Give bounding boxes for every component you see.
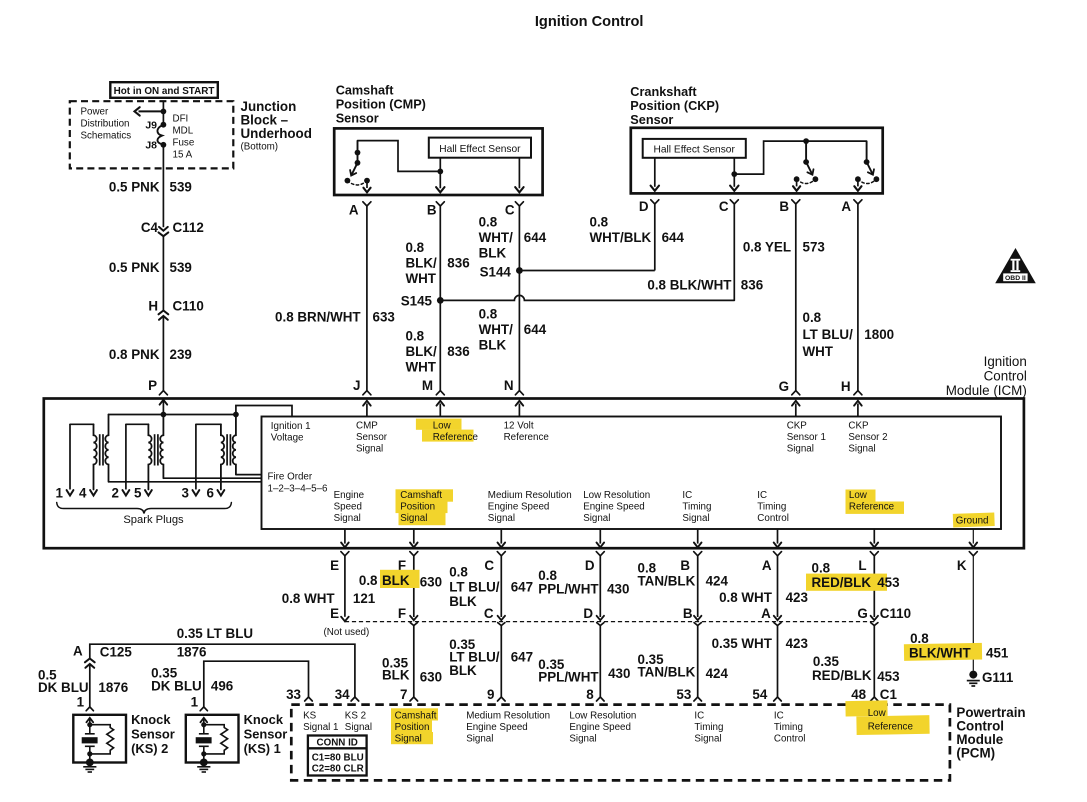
spark plugs brace [57, 503, 232, 514]
svg-text:Module (ICM): Module (ICM) [946, 383, 1027, 398]
svg-text:BLK: BLK [479, 246, 507, 261]
spark plug output 1 [67, 490, 74, 495]
wire: 0.8 WHT 423 from ICM A [777, 556, 779, 617]
connector C4 C112 [159, 227, 168, 231]
svg-text:430: 430 [608, 666, 630, 681]
svg-text:F: F [398, 606, 406, 621]
ignition coil 1 secondary loop [70, 423, 94, 425]
svg-text:0.8: 0.8 [406, 240, 425, 255]
svg-text:D: D [583, 606, 593, 621]
svg-text:C: C [505, 203, 515, 218]
arrow: F signal out of module [413, 529, 415, 544]
arrow: CMP sensor signal into module [366, 404, 368, 417]
svg-text:630: 630 [420, 575, 442, 590]
svg-text:BLK: BLK [382, 668, 410, 683]
spark plug output 3 [193, 490, 200, 495]
svg-text:WHT/: WHT/ [479, 230, 513, 245]
svg-text:Signal: Signal [583, 513, 610, 524]
svg-text:0.8 YEL: 0.8 YEL [743, 240, 791, 255]
fuse DFI MDL 15 A [161, 122, 167, 128]
highlight: Low Reference (ICM top) [416, 419, 462, 430]
svg-text:Knock: Knock [244, 712, 284, 727]
svg-text:Ignition 1: Ignition 1 [271, 421, 311, 432]
svg-text:239: 239 [170, 347, 192, 362]
knock sensor KS2 case ground [86, 759, 94, 767]
svg-text:4: 4 [79, 486, 87, 501]
wire into PCM pin 54 [777, 625, 779, 697]
svg-text:N: N [504, 378, 514, 393]
svg-text:121: 121 [353, 591, 376, 606]
highlight: BLK of 0.8 BLK 630 [380, 570, 420, 588]
knock sensor KS1 internal resistor [204, 725, 228, 754]
svg-text:Voltage: Voltage [271, 433, 304, 444]
svg-text:(KS) 1: (KS) 1 [244, 741, 281, 756]
svg-text:C110: C110 [880, 606, 911, 621]
svg-text:BLK: BLK [449, 663, 477, 678]
spark plug output 4 [90, 490, 97, 495]
ignition coil 3 secondary loop [196, 423, 221, 425]
ignition coil 3 primary winding [233, 415, 236, 475]
wire: 0.8 WHT 121 from ICM E (not used) [344, 556, 346, 617]
knock sensor KS1 case ground [200, 759, 208, 767]
svg-text:Engine Speed: Engine Speed [466, 722, 528, 733]
svg-text:Speed: Speed [334, 502, 362, 513]
OBD II symbol [997, 250, 1035, 283]
svg-text:15 A: 15 A [173, 150, 193, 161]
svg-text:C2=80 CLR: C2=80 CLR [312, 763, 364, 774]
ignition coil 2 primary winding [160, 415, 163, 479]
svg-text:630: 630 [420, 670, 442, 685]
svg-text:Signal: Signal [395, 734, 422, 745]
knock sensor KS2 signal arrow [86, 718, 93, 722]
svg-text:(Not used): (Not used) [324, 627, 370, 638]
svg-text:Control: Control [774, 734, 806, 745]
svg-text:Engine Speed: Engine Speed [583, 502, 645, 513]
svg-text:J8: J8 [145, 140, 157, 152]
svg-text:Position: Position [395, 722, 430, 733]
CKP trigger switch 2 [866, 141, 868, 162]
CMP switch dashed throw arc [347, 181, 367, 185]
highlight: BLK/WHT of 0.8 BLK/WHT 451 [904, 643, 982, 661]
svg-text:K: K [957, 558, 967, 573]
svg-text:Signal 1: Signal 1 [303, 722, 338, 733]
svg-text:2: 2 [111, 486, 118, 501]
svg-text:453: 453 [877, 669, 899, 684]
bus junction dot at pin P [161, 412, 167, 418]
svg-text:54: 54 [752, 687, 767, 702]
svg-text:KS: KS [303, 711, 317, 722]
wire: 0.5 PNK 539 from fuse to C112 [162, 145, 164, 227]
wire: KS 1 lead [203, 669, 205, 707]
svg-text:12 Volt: 12 Volt [504, 421, 534, 432]
svg-text:BLK: BLK [479, 338, 507, 353]
CMP switch output wire to pin A [366, 181, 368, 188]
CMP junction dot on hall-B line [437, 169, 443, 175]
svg-text:C1: C1 [880, 687, 898, 702]
svg-text:836: 836 [447, 344, 469, 359]
svg-text:539: 539 [170, 260, 192, 275]
svg-text:0.35: 0.35 [813, 654, 840, 669]
svg-text:496: 496 [211, 679, 233, 694]
junction dot on feed wire [161, 109, 167, 115]
svg-text:Fire Order: Fire Order [268, 472, 313, 483]
svg-text:0.8 PNK: 0.8 PNK [109, 347, 160, 362]
svg-text:0.8: 0.8 [910, 631, 929, 646]
svg-text:TAN/BLK: TAN/BLK [638, 665, 696, 680]
CKP hall wire to pin C with branch to switches [733, 158, 735, 187]
wire: 0.8 LT BLU/WHT 1800 CKP A to ICM H [857, 204, 859, 391]
highlight: Ground [953, 512, 995, 527]
arrow: 12 volt reference into module [518, 404, 520, 417]
svg-text:Signal: Signal [682, 513, 709, 524]
arrow: K signal out of module [972, 529, 974, 544]
svg-text:Medium Resolution: Medium Resolution [488, 490, 572, 501]
arrow: low reference into module [439, 404, 441, 417]
ICM inner box [262, 417, 1002, 530]
svg-text:Signal: Signal [345, 722, 372, 733]
svg-text:C1=80 BLU: C1=80 BLU [312, 753, 364, 764]
ignition coil 3 secondary winding [221, 424, 224, 489]
svg-text:PPL/WHT: PPL/WHT [538, 582, 599, 597]
svg-text:Ignition Control: Ignition Control [535, 14, 644, 30]
svg-text:Sensor 2: Sensor 2 [848, 432, 887, 443]
svg-text:8: 8 [586, 687, 594, 702]
svg-text:9: 9 [487, 687, 494, 702]
connector A C125 [85, 664, 94, 668]
wire: pin P into ignition 1 voltage bus [160, 400, 168, 405]
svg-text:A: A [349, 203, 359, 218]
svg-text:1876: 1876 [177, 645, 207, 660]
svg-text:E: E [330, 558, 339, 573]
svg-text:MDL: MDL [173, 126, 194, 137]
arrow: B signal out of module [697, 529, 699, 544]
connector on CMP wire C [515, 202, 523, 206]
svg-text:1: 1 [77, 695, 85, 710]
knock sensor KS1 box [186, 715, 239, 763]
svg-text:PPL/WHT: PPL/WHT [538, 670, 599, 685]
svg-text:Hot in ON and START: Hot in ON and START [114, 86, 215, 97]
CKP trigger switch 1 [805, 141, 807, 162]
svg-text:Reference: Reference [433, 432, 479, 443]
svg-text:G: G [857, 606, 867, 621]
svg-text:Timing: Timing [774, 722, 803, 733]
wire: 0.8 YEL 573 CKP B to ICM G [795, 204, 797, 391]
svg-text:53: 53 [676, 687, 691, 702]
svg-text:0.8: 0.8 [479, 215, 498, 230]
connector A at separator [774, 616, 781, 620]
svg-text:Signal: Signal [466, 734, 493, 745]
PCM dashed box [291, 705, 950, 781]
svg-text:CMP: CMP [356, 421, 378, 432]
svg-text:KS 2: KS 2 [345, 711, 366, 722]
ICM outer box [44, 399, 1024, 549]
wire: 0.5 DK BLU 1876 to KS 2 [89, 664, 91, 707]
connector C at separator [498, 616, 505, 620]
svg-text:Medium Resolution: Medium Resolution [466, 711, 550, 722]
wire into PCM pin 53 [697, 625, 699, 697]
svg-text:P: P [148, 378, 157, 393]
svg-text:5: 5 [134, 486, 142, 501]
wire: 0.8 TAN/BLK 424 from ICM B [697, 556, 699, 617]
svg-text:Reference: Reference [504, 432, 550, 443]
svg-text:Low: Low [849, 490, 868, 501]
svg-text:A: A [841, 199, 851, 214]
connector F at separator [410, 616, 417, 620]
highlight: RED/BLK of 0.8 RED/BLK 453 [806, 574, 887, 591]
svg-text:BLK/WHT: BLK/WHT [909, 646, 972, 661]
svg-text:LT BLU/: LT BLU/ [449, 580, 500, 595]
svg-text:C125: C125 [100, 645, 133, 660]
spark plug output 2 [123, 490, 130, 495]
svg-text:S145: S145 [401, 294, 433, 309]
svg-text:0.8: 0.8 [406, 329, 425, 344]
svg-text:Signal: Signal [356, 444, 383, 455]
CKP bus junction dot [803, 138, 809, 144]
svg-text:C110: C110 [173, 299, 204, 314]
highlight: Camshaft Position Signal (PCM) [391, 708, 438, 720]
svg-text:Hall Effect Sensor: Hall Effect Sensor [654, 145, 736, 156]
knock sensor KS2 box [73, 715, 126, 763]
wire: 0.8 RED/BLK 453 from ICM L [873, 556, 875, 617]
connector on CKP wire C [730, 200, 738, 204]
knock sensor KS1 signal arrow [200, 718, 207, 722]
svg-text:34: 34 [335, 687, 350, 702]
knock sensor KS2 piezo element [85, 733, 95, 735]
svg-text:Control: Control [984, 369, 1027, 384]
svg-text:0.5 PNK: 0.5 PNK [109, 260, 160, 275]
svg-text:423: 423 [786, 636, 808, 651]
svg-text:H: H [841, 379, 851, 394]
svg-text:L: L [858, 558, 866, 573]
wire into PCM pin 8 [599, 625, 601, 697]
svg-text:WHT/: WHT/ [479, 322, 513, 337]
CKP sensor box [631, 128, 883, 194]
svg-text:WHT: WHT [406, 360, 437, 375]
CMP trigger switch [357, 141, 359, 163]
ignition coil 2 core [154, 434, 156, 465]
svg-text:1800: 1800 [864, 327, 894, 342]
arrow: A signal out of module [777, 529, 779, 544]
svg-text:451: 451 [986, 646, 1009, 661]
svg-text:424: 424 [706, 666, 729, 681]
svg-text:Position (CKP): Position (CKP) [630, 99, 719, 113]
junction block dashed box [70, 101, 234, 168]
ignition 1 voltage bus [109, 414, 236, 416]
svg-text:7: 7 [400, 687, 407, 702]
svg-text:0.8 BRN/WHT: 0.8 BRN/WHT [275, 310, 361, 325]
wire into PCM pin 48 [873, 625, 875, 697]
svg-text:Power: Power [81, 107, 110, 118]
svg-text:Signal: Signal [569, 734, 596, 745]
svg-text:OBD II: OBD II [1005, 275, 1026, 282]
svg-text:647: 647 [511, 580, 533, 595]
svg-text:424: 424 [706, 574, 729, 589]
svg-text:0.35 WHT: 0.35 WHT [712, 636, 773, 651]
svg-text:CONN ID: CONN ID [317, 737, 358, 748]
svg-text:Spark Plugs: Spark Plugs [123, 514, 184, 526]
svg-text:3: 3 [181, 486, 188, 501]
svg-text:Camshaft: Camshaft [400, 490, 442, 501]
wire: 0.5 PNK 539 from C112 to C110 [162, 236, 164, 310]
svg-text:Sensor: Sensor [244, 726, 288, 741]
svg-text:BLK/: BLK/ [406, 256, 438, 271]
svg-text:0.35 LT BLU: 0.35 LT BLU [177, 626, 253, 641]
connector on CMP wire A [363, 202, 371, 206]
wire: 0.8 WHT/BLK 644 CKP D to splice S144 [654, 204, 656, 271]
wire: 0.8 BLK/WHT 836 CMP B to ICM M [439, 206, 441, 391]
svg-text:Reference: Reference [868, 722, 914, 733]
svg-text:A: A [73, 644, 83, 659]
svg-text:0.8: 0.8 [359, 573, 378, 588]
connector G C110 at separator [871, 616, 878, 620]
svg-text:Reference: Reference [849, 502, 895, 513]
svg-text:TAN/BLK: TAN/BLK [638, 574, 696, 589]
svg-text:Camshaft: Camshaft [395, 711, 437, 722]
svg-text:IC: IC [757, 490, 767, 501]
wire: 0.8 LT BLU/BLK 647 from ICM C [500, 556, 502, 617]
highlight: Low Reference (PCM) [845, 700, 887, 716]
svg-text:CKP: CKP [787, 421, 808, 432]
wire: 0.35 LT BLU 1876 to PCM pin 34 [90, 644, 355, 697]
svg-text:(KS) 2: (KS) 2 [131, 741, 168, 756]
connector B at separator [694, 616, 701, 620]
svg-text:Signal: Signal [488, 513, 515, 524]
svg-text:G: G [779, 379, 789, 394]
CKP switch 2 output wire to pin A [857, 179, 859, 186]
connector D at separator [597, 616, 604, 620]
svg-text:M: M [422, 378, 433, 393]
svg-text:Sensor: Sensor [630, 113, 673, 127]
ignition coil 2 secondary winding [148, 424, 151, 489]
wire: 0.8 WHT/BLK 644 CMP C to ICM N [518, 206, 520, 391]
svg-text:1–2–3–4–5–6: 1–2–3–4–5–6 [268, 484, 328, 495]
svg-text:C: C [719, 199, 729, 214]
svg-text:S144: S144 [480, 265, 512, 280]
svg-text:C: C [484, 558, 494, 573]
arrow: E signal out of module [344, 529, 346, 544]
svg-text:644: 644 [662, 230, 685, 245]
svg-text:Sensor: Sensor [356, 432, 388, 443]
svg-text:BLK: BLK [449, 594, 477, 609]
svg-text:644: 644 [524, 322, 547, 337]
CKP hall output wire to pin D [654, 158, 656, 187]
wire: 0.8 PNK 239 from C110 to ICM pin P [162, 316, 164, 391]
svg-text:647: 647 [511, 650, 533, 665]
connector on CMP wire B [436, 202, 444, 206]
CMP internal wire from switch to hall-B line [358, 141, 441, 172]
Hall Effect Sensor box (CKP) [643, 139, 746, 158]
svg-text:0.8: 0.8 [479, 307, 498, 322]
arrow: L signal out of module [873, 529, 875, 544]
svg-text:Low Resolution: Low Resolution [569, 711, 636, 722]
spark plug output 5 [145, 490, 152, 495]
svg-text:J9: J9 [145, 120, 157, 132]
box: Hot in ON and START [110, 82, 218, 98]
svg-text:423: 423 [786, 590, 808, 605]
svg-text:0.8 WHT: 0.8 WHT [282, 591, 336, 606]
svg-text:Ground: Ground [956, 516, 989, 527]
bus junction dot at coil 3 [233, 412, 239, 418]
svg-text:H: H [148, 299, 158, 314]
svg-text:Engine Speed: Engine Speed [569, 722, 631, 733]
svg-text:IC: IC [694, 711, 704, 722]
svg-text:836: 836 [741, 278, 763, 293]
svg-text:Fuse: Fuse [173, 138, 195, 149]
ignition coil 1 primary winding [105, 415, 108, 482]
svg-text:430: 430 [607, 582, 629, 597]
svg-text:J: J [353, 378, 360, 393]
highlight: Low Reference (ICM bottom) [846, 490, 876, 502]
svg-text:1876: 1876 [98, 680, 128, 695]
svg-text:WHT/BLK: WHT/BLK [590, 230, 652, 245]
svg-text:6: 6 [206, 486, 213, 501]
wire: 0.35 DK BLU 496 to PCM pin 33 [204, 661, 309, 697]
svg-text:LT BLU/: LT BLU/ [803, 327, 854, 342]
ground G111 [969, 671, 977, 679]
Hall Effect Sensor box (CMP) [429, 138, 531, 158]
svg-text:C: C [484, 606, 494, 621]
svg-text:Signal: Signal [694, 734, 721, 745]
wire: 0.8 BLK/WHT 451 ground wire from ICM K [972, 556, 974, 671]
svg-text:0.8: 0.8 [812, 561, 831, 576]
svg-text:B: B [779, 199, 789, 214]
svg-text:C4: C4 [141, 220, 159, 235]
svg-text:539: 539 [170, 180, 192, 195]
svg-text:Signal: Signal [400, 513, 427, 524]
ignition coil 2 primary return wire [163, 477, 261, 479]
svg-text:Low: Low [868, 708, 887, 719]
svg-text:G111: G111 [982, 670, 1014, 685]
svg-text:DK BLU: DK BLU [151, 679, 202, 694]
svg-text:Hall Effect Sensor: Hall Effect Sensor [439, 144, 521, 155]
svg-text:A: A [762, 558, 772, 573]
svg-text:(PCM): (PCM) [956, 746, 995, 761]
svg-text:WHT: WHT [406, 271, 437, 286]
svg-text:DFI: DFI [173, 114, 189, 125]
svg-text:D: D [639, 199, 649, 214]
wire: S145 link to CKP pin C wire with hop over CMP C wire [440, 295, 734, 300]
svg-text:C112: C112 [173, 220, 204, 235]
svg-text:Knock: Knock [131, 712, 171, 727]
svg-text:B: B [680, 558, 690, 573]
svg-text:Distribution: Distribution [81, 119, 130, 130]
arrow: D signal out of module [599, 529, 601, 544]
svg-text:Sensor: Sensor [336, 112, 379, 126]
svg-text:Timing: Timing [682, 502, 711, 513]
CKP switch 1 output wire to pin B [796, 179, 798, 186]
arrow: CKP sensor 1 signal into module [795, 404, 797, 417]
arrow: C signal out of module [500, 529, 502, 544]
svg-text:Timing: Timing [694, 722, 723, 733]
svg-text:D: D [585, 558, 595, 573]
svg-text:Underhood: Underhood [241, 126, 312, 141]
knock sensor KS1 piezo element [199, 733, 209, 735]
svg-text:RED/BLK: RED/BLK [812, 668, 872, 683]
svg-text:Position (CMP): Position (CMP) [336, 98, 426, 112]
highlight: Camshaft Position Signal (ICM) [396, 489, 454, 501]
wire: 0.8 BRN/WHT 633 CMP A to ICM J [366, 206, 368, 391]
svg-text:33: 33 [286, 687, 301, 702]
svg-text:Signal: Signal [334, 513, 361, 524]
CKP internal bus wire [734, 141, 866, 174]
svg-text:IC: IC [682, 490, 692, 501]
svg-text:633: 633 [373, 310, 395, 325]
knock sensor KS2 internal resistor [90, 725, 114, 754]
svg-text:573: 573 [803, 240, 825, 255]
svg-text:Ignition: Ignition [984, 354, 1027, 369]
wire into PCM pin 7 [413, 625, 415, 697]
svg-text:0.8 WHT: 0.8 WHT [719, 590, 773, 605]
